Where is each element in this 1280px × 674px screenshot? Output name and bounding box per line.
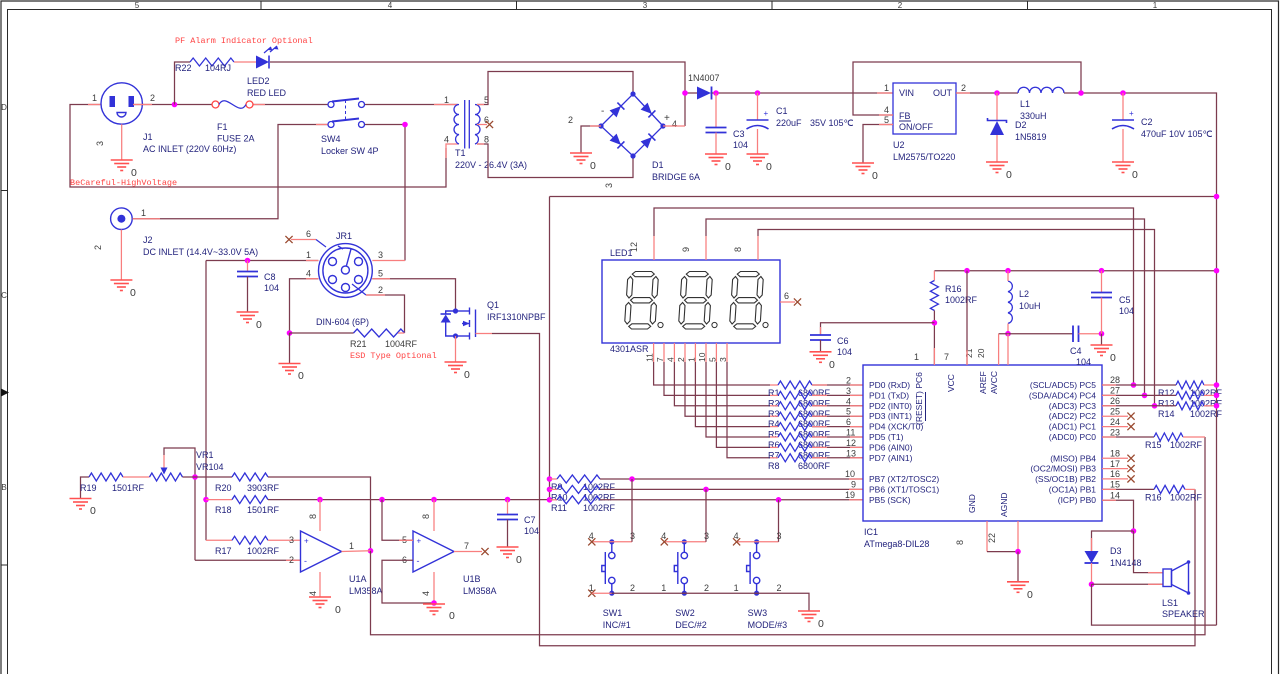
wire U2 OUT stub: [956, 92, 970, 94]
wire R21 ground stem: [289, 333, 291, 364]
wire R12 right: [1204, 384, 1217, 386]
JR1 pin2 blue lead: [352, 284, 366, 295]
wire IC1 AREF stub: [998, 334, 1000, 365]
wire R5 right stub: [812, 426, 827, 428]
svg-text:C: C: [1, 291, 7, 300]
svg-text:C2: C2: [1141, 117, 1153, 127]
svg-text:104: 104: [733, 140, 748, 150]
svg-text:C4: C4: [1070, 346, 1082, 356]
diode D2 schottky: [988, 118, 1007, 123]
svg-text:J1: J1: [143, 132, 153, 142]
wire R1 to IC: [812, 384, 863, 386]
wire SW1 pin3 to row: [631, 479, 633, 542]
wire LED1 pin4 to R3: [674, 362, 770, 406]
wire J2 pin1 stub: [133, 218, 161, 220]
junction D2 top: [994, 90, 1000, 96]
svg-text:2: 2: [704, 583, 709, 593]
svg-text:0: 0: [1027, 589, 1033, 601]
junction AVCC node: [1005, 331, 1011, 337]
svg-text:1002RF: 1002RF: [247, 546, 280, 556]
wire U2 ONOFF stub: [879, 124, 893, 126]
wire T1 pin6 stub: [477, 124, 487, 126]
svg-text:(MISO) PB4: (MISO) PB4: [1050, 453, 1096, 463]
wire J1 pin1 stub: [88, 104, 101, 106]
resistor R15: [1154, 433, 1183, 441]
ground C1: [747, 154, 769, 165]
svg-text:8: 8: [733, 247, 743, 252]
wire nc stub row 416.2: [1102, 415, 1128, 417]
resistor R6: [778, 433, 812, 441]
wire C5 ground stem: [1101, 334, 1103, 345]
svg-text:4: 4: [665, 357, 675, 362]
ground R19: [70, 499, 92, 510]
wire C3 top stem: [715, 93, 717, 128]
wire R22 to LED2: [234, 61, 256, 63]
svg-text:PD7 (AIN1): PD7 (AIN1): [869, 453, 913, 463]
svg-text:2: 2: [630, 583, 635, 593]
wire R2 IC stub: [850, 394, 863, 396]
svg-text:(SS/OC1B) PB2: (SS/OC1B) PB2: [1035, 474, 1096, 484]
svg-text:(ADC1) PC1: (ADC1) PC1: [1049, 422, 1097, 432]
wire PB0 stub: [1102, 499, 1116, 501]
junction C5 bottom: [1099, 331, 1105, 337]
wire R16 right stub: [1185, 488, 1195, 490]
capacitor C8: [237, 272, 258, 277]
svg-text:SW3: SW3: [748, 608, 768, 618]
wire R6 right stub: [812, 436, 827, 438]
svg-text:2: 2: [93, 245, 103, 250]
resistor R20: [232, 473, 268, 481]
op-amp U1B: [413, 531, 454, 572]
7-seg digit 1: [632, 272, 654, 277]
diode 1N4007: [697, 87, 711, 100]
wire J2 to SW4 lower pole: [133, 125, 329, 219]
svg-text:AGND: AGND: [999, 492, 1009, 517]
junction 1N4007 anode: [682, 90, 688, 96]
wire R3 left stub: [770, 405, 778, 407]
junction U1A pin8: [317, 497, 323, 503]
wire SW4 upper right to T1 pin1: [365, 104, 459, 106]
svg-text:B: B: [1, 483, 6, 492]
IC IC1 ATmega8 box: [863, 365, 1102, 521]
svg-text:0: 0: [516, 554, 522, 566]
no-connect LED1 pin6: [794, 298, 801, 305]
wire R17 left: [206, 539, 232, 541]
wire U1A pin4 stem: [319, 572, 321, 597]
wire U1B pin4 stem: [433, 572, 435, 603]
wire PB0 to speaker column: [1102, 500, 1134, 531]
svg-text:D1: D1: [652, 160, 664, 170]
resistor R1: [778, 381, 812, 389]
svg-text:3: 3: [846, 386, 851, 396]
svg-text:4: 4: [672, 119, 677, 129]
LED LED2: [256, 56, 269, 69]
junction SW4 lower to JR1-3: [402, 122, 408, 128]
wire to speaker top: [1134, 531, 1164, 573]
junction rail right: [1214, 268, 1220, 274]
svg-text:MODE/#3: MODE/#3: [748, 620, 788, 630]
bridge diode top-right: [641, 103, 652, 114]
wire VR1 right to R20: [183, 476, 233, 478]
svg-text:1: 1: [349, 541, 354, 551]
ground U1B: [423, 604, 445, 615]
wire LED1 bottom pin7 stub: [663, 343, 665, 362]
svg-text:22: 22: [987, 533, 997, 543]
svg-text:SW2: SW2: [675, 608, 695, 618]
svg-text:0: 0: [1110, 352, 1116, 364]
wire R4 IC stub: [850, 415, 863, 417]
svg-text:T1: T1: [455, 148, 466, 158]
svg-text:JR1: JR1: [336, 231, 352, 241]
svg-text:0: 0: [1132, 169, 1138, 181]
wire PB1 stub: [1102, 488, 1116, 490]
svg-text:6: 6: [784, 291, 789, 301]
svg-text:0: 0: [766, 161, 772, 173]
junction C8 top: [245, 258, 251, 264]
wire speaker bottom stub: [1148, 583, 1163, 585]
no-connect pin row 458.3: [1127, 455, 1134, 462]
svg-text:104RJ: 104RJ: [205, 63, 231, 73]
svg-text:R8: R8: [768, 461, 780, 471]
bridge diode bottom-right: [641, 137, 652, 148]
svg-text:FUSE 2A: FUSE 2A: [217, 134, 255, 144]
svg-text:220uF: 220uF: [776, 118, 802, 128]
frame left arrow marker: [1, 389, 9, 397]
svg-text:R1: R1: [768, 388, 780, 398]
wire L1 to C2 to right rail: [1064, 93, 1217, 625]
wire LED1 bottom pin11 stub: [653, 343, 655, 362]
wire bridge left stub: [590, 125, 601, 127]
svg-text:1: 1: [734, 583, 739, 593]
wire LED1 bottom pin4 stub: [673, 343, 675, 362]
wire VCC column to pullups: [549, 197, 551, 500]
svg-text:SPEAKER: SPEAKER: [1162, 609, 1205, 619]
svg-text:DEC/#2: DEC/#2: [675, 620, 707, 630]
junction R22 branch: [172, 102, 178, 108]
svg-text:6800RF: 6800RF: [798, 461, 831, 471]
wire R21 right stub: [398, 332, 405, 334]
wire LED1 pin8 stub: [757, 236, 759, 260]
svg-text:-: -: [304, 556, 307, 566]
svg-text:LM358A: LM358A: [463, 586, 497, 596]
junction U1A out: [368, 548, 374, 554]
wire JR1 pin6 stub: [291, 239, 316, 241]
wire LED1 bottom pin2 stub: [684, 343, 686, 362]
svg-text:10uH: 10uH: [1019, 301, 1041, 311]
capacitor C5: [1091, 293, 1112, 298]
ground D2: [986, 162, 1008, 173]
wire R3 right stub: [812, 405, 827, 407]
junction rail C5: [1099, 268, 1105, 274]
wire R8 IC stub: [850, 457, 863, 459]
svg-text:9: 9: [851, 480, 856, 490]
wire LED1 pin5 to R7: [716, 362, 770, 447]
wire LED1 pin10 to R6: [706, 362, 770, 437]
wire R8 left stub: [770, 457, 778, 459]
no-connect SW2 pin4: [661, 538, 668, 545]
junction IC1 ground: [1015, 549, 1021, 555]
resistor R19: [89, 473, 123, 481]
svg-text:8: 8: [421, 514, 431, 519]
wire R1 left stub: [770, 384, 778, 386]
wire R9 row to IC: [600, 478, 863, 480]
svg-text:1002RF: 1002RF: [1170, 440, 1203, 450]
wire reset to C6: [821, 323, 935, 335]
svg-text:R6: R6: [768, 440, 780, 450]
svg-text:LED2: LED2: [247, 76, 270, 86]
bridge diode top-left: [610, 106, 621, 117]
wire C1 top stem: [757, 93, 759, 120]
svg-text:3: 3: [777, 531, 782, 541]
wire L2 bottom stem: [1007, 324, 1009, 334]
wire R11 row to IC: [600, 499, 863, 501]
svg-text:13: 13: [846, 448, 856, 458]
junction SW3 tap: [776, 497, 782, 503]
wire R6 left stub: [770, 436, 778, 438]
svg-text:R16: R16: [1145, 493, 1162, 503]
svg-text:1N5819: 1N5819: [1015, 132, 1047, 142]
svg-text:0: 0: [464, 369, 470, 381]
wire R21 left wire: [290, 332, 354, 334]
wire R1 right stub: [812, 384, 827, 386]
svg-text:1N4007: 1N4007: [688, 73, 720, 83]
ground R21: [279, 364, 301, 375]
svg-text:0: 0: [818, 618, 824, 630]
svg-text:16: 16: [1110, 469, 1120, 479]
svg-text:4: 4: [306, 269, 311, 279]
wire R2 to IC: [812, 394, 863, 396]
junction C2 top: [1120, 90, 1126, 96]
7-seg digit 2: [686, 272, 708, 277]
capacitor C2: [1112, 120, 1134, 129]
svg-text:1002RF: 1002RF: [945, 295, 978, 305]
wire JR1 pin5 stub: [372, 278, 390, 280]
svg-text:ON/OFF: ON/OFF: [899, 122, 933, 132]
svg-text:1: 1: [141, 208, 146, 218]
svg-text:C3: C3: [733, 129, 745, 139]
svg-text:1: 1: [444, 95, 449, 105]
svg-text:VIN: VIN: [899, 88, 914, 98]
wire SW1 top: [592, 541, 632, 543]
no-connect U1B pin7: [481, 548, 488, 555]
wire R8 right stub: [812, 457, 827, 459]
svg-text:104: 104: [1119, 306, 1134, 316]
VR1 wiper arrow: [161, 468, 168, 475]
wire D2 top stem: [996, 93, 998, 120]
resistor R9: [557, 475, 600, 483]
ground C7: [497, 547, 519, 558]
wire R20 feedback: [268, 477, 371, 551]
svg-text:0: 0: [131, 167, 137, 179]
svg-text:D2: D2: [1015, 120, 1027, 130]
junction U1B pin5: [379, 497, 385, 503]
wire U1A out to ADC line: [371, 437, 1206, 635]
svg-text:25: 25: [1110, 407, 1120, 417]
svg-text:0: 0: [449, 610, 455, 622]
junction R12 to VCC: [1214, 382, 1220, 388]
wire R10 left stub: [550, 488, 558, 490]
svg-text:DIN-604 (6P): DIN-604 (6P): [316, 317, 369, 327]
junction C7 top: [505, 497, 511, 503]
svg-text:R12: R12: [1158, 388, 1175, 398]
ground bridge: [570, 153, 592, 164]
wire IC1 AGND stem: [1017, 521, 1019, 552]
junction U1B pin8: [431, 497, 437, 503]
wire PC3 stub: [1102, 405, 1116, 407]
junction rail L2: [1005, 268, 1011, 274]
wire LED1 bottom pin10 stub: [705, 343, 707, 362]
wire U1A pin8 stub: [319, 500, 321, 531]
svg-text:J2: J2: [143, 235, 153, 245]
wire IC1 PC5 to R12: [1102, 384, 1176, 386]
wire L2 top stem: [1007, 271, 1009, 281]
svg-text:+: +: [304, 537, 309, 546]
wire PC0 stub: [1102, 436, 1116, 438]
wire VR1 wiper loop: [164, 448, 195, 560]
wire speaker bottom: [1092, 583, 1164, 585]
bridge node dots: [630, 91, 635, 96]
no-connect pin row 416.2: [1127, 413, 1134, 420]
svg-text:1501RF: 1501RF: [112, 483, 145, 493]
resistor VR1 body: [150, 473, 183, 481]
svg-text:27: 27: [1110, 386, 1120, 396]
wire IC1 pin1 stub: [933, 348, 935, 365]
svg-text:PD1 (TxD): PD1 (TxD): [869, 390, 909, 400]
svg-text:R4: R4: [768, 419, 780, 429]
svg-text:18: 18: [1110, 449, 1120, 459]
svg-text:4: 4: [421, 591, 431, 596]
svg-text:9: 9: [681, 247, 691, 252]
svg-text:0: 0: [335, 604, 341, 616]
svg-text:(ICP) PB0: (ICP) PB0: [1058, 495, 1097, 505]
wire R22 branch up: [175, 62, 191, 105]
ground C6: [810, 352, 832, 363]
wire R13 right: [1204, 394, 1217, 396]
junction C1 top: [755, 90, 761, 96]
svg-text:4: 4: [444, 135, 449, 145]
wire Q1 gate stub: [476, 333, 493, 335]
svg-text:2: 2: [898, 1, 903, 10]
svg-text:U2: U2: [893, 140, 905, 150]
svg-text:2: 2: [961, 83, 966, 93]
wire U2 FB feedback: [853, 62, 1081, 115]
svg-text:0: 0: [829, 359, 835, 371]
wire PC5 stub: [1102, 384, 1116, 386]
wire T1 pin5 stub: [477, 104, 484, 106]
svg-text:11: 11: [846, 428, 855, 438]
svg-text:4: 4: [846, 396, 851, 406]
wire R2 left stub: [770, 394, 778, 396]
svg-text:5: 5: [884, 115, 889, 125]
capacitor C1: [747, 120, 769, 129]
wire J1 pin1 to T1 pin4 loop: [70, 105, 446, 188]
wire U1B pin6 loop: [382, 560, 434, 603]
wire SW2 pin3 to row: [705, 489, 707, 541]
wire IC1 GND stem: [986, 521, 988, 552]
svg-text:1: 1: [306, 250, 311, 260]
svg-text:F1: F1: [217, 122, 228, 132]
wire LED1 pin1 to R5: [695, 362, 770, 427]
wire C5 column: [1101, 271, 1103, 293]
wire J1 pin2 to fuse: [133, 104, 212, 106]
wire SW4 lower right to JR1 pin3 column: [365, 125, 406, 261]
svg-text:3: 3: [630, 531, 635, 541]
svg-text:PD5 (T1): PD5 (T1): [869, 432, 904, 442]
junction R11 left: [547, 497, 553, 503]
wire C1 bottom stem: [757, 129, 759, 154]
resistor R21: [354, 329, 405, 337]
svg-text:2: 2: [378, 285, 383, 295]
svg-text:8: 8: [955, 540, 965, 545]
svg-text:104: 104: [837, 347, 852, 357]
wire C6 top stub: [820, 327, 822, 335]
wire PC0 to R15: [1102, 436, 1154, 438]
svg-text:3: 3: [378, 250, 383, 260]
junction SW2 tap: [703, 487, 709, 493]
wire JR1 pin2: [366, 295, 405, 333]
svg-text:ATmega8-DIL28: ATmega8-DIL28: [864, 539, 929, 549]
no-connect JR1 pin6: [285, 236, 292, 243]
wire R5 left stub: [770, 426, 778, 428]
svg-text:R17: R17: [215, 546, 232, 556]
wire bridge left node to ground: [581, 126, 601, 153]
wire LED1 pin9 to IC column: [706, 219, 1145, 395]
svg-text:D: D: [1, 103, 7, 112]
resistor R2: [778, 391, 812, 399]
capacitor C3: [706, 128, 727, 133]
svg-text:1004RF: 1004RF: [385, 339, 418, 349]
wire U1A pin2 from divider: [195, 559, 301, 561]
junction PC4 column: [1142, 393, 1148, 399]
svg-text:R3: R3: [768, 409, 780, 419]
resistor R10: [557, 485, 600, 493]
wire fuse right stub: [253, 104, 265, 106]
wire C8 top stem: [247, 261, 249, 272]
wire U1B pin8 stub: [433, 500, 435, 531]
wire SW1 pin1 stub: [592, 592, 612, 594]
wire U1A pin2 stub: [286, 559, 301, 561]
no-connect SW1 pin1: [588, 590, 595, 597]
junction VR1 right: [192, 474, 198, 480]
junction rail VCC pin7: [964, 268, 970, 274]
wire U2 FB stub: [879, 114, 893, 116]
capacitor C4: [1073, 326, 1079, 343]
junction R14 to VCC: [1214, 403, 1220, 409]
junction reset node: [932, 320, 938, 326]
wire JR1 pin4: [290, 279, 319, 333]
wire J2 pin2 stem: [120, 230, 122, 281]
switch SW2 pushbutton: [674, 542, 687, 593]
wire R6 IC stub: [850, 436, 863, 438]
svg-text:VCC: VCC: [946, 374, 956, 392]
wire VCC rail opamp: [268, 499, 550, 501]
resistor R17: [232, 536, 268, 544]
wire R5 IC stub: [850, 426, 863, 428]
resistor R12: [1176, 381, 1204, 389]
svg-text:104: 104: [264, 283, 279, 293]
junction SW1 tap: [629, 476, 635, 482]
svg-text:+: +: [764, 109, 769, 118]
junction R13 to VCC: [1214, 393, 1220, 399]
bridge rectifier D1 diamond: [601, 94, 663, 156]
bridge diode bottom-left: [610, 134, 621, 145]
wire nc stub row 426.6: [1102, 426, 1128, 428]
wire VCC line A: [550, 196, 1217, 198]
wire SW3 top: [737, 541, 779, 543]
wire J1 pin3 stem: [121, 124, 123, 160]
U2 FB underline: [899, 120, 911, 122]
wire JR1 pin3 stub: [372, 260, 405, 262]
